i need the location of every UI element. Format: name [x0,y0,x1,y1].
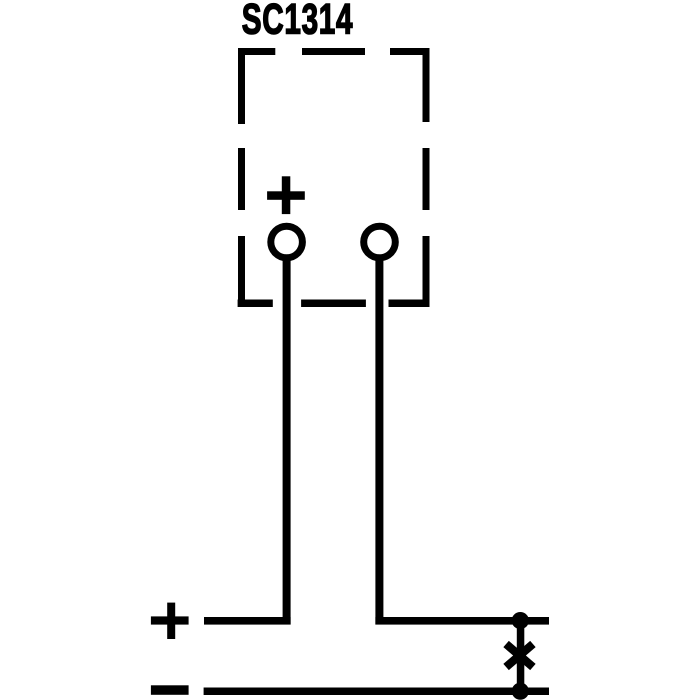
terminal pin 2 [364,226,396,258]
wire from pin 1 down to + supply line [283,259,291,625]
crossing/fuse X symbol [506,644,533,667]
relay/component dashed outline box: top edge [238,48,430,55]
+ level line right segment (pin2 to right bus) [375,617,549,625]
dashed outline box: bottom edge [238,300,430,308]
battery - terminal label [151,685,189,695]
junction dot top [512,612,529,629]
junction dot bottom [512,683,529,700]
svg-text:SC1314: SC1314 [242,0,353,43]
battery + terminal label [151,603,189,639]
dashed outline box: left edge [238,48,245,307]
dashed outline box: right edge [423,48,430,307]
- supply line [204,688,549,696]
label SC1314 [242,0,353,43]
terminal pin 1 (+) [271,226,303,258]
right vertical bus wire [517,620,525,692]
+ supply line left segment [204,617,291,625]
wire from pin 2 down to junction line [375,259,383,625]
polarity mark + above pin 1 [267,176,305,214]
